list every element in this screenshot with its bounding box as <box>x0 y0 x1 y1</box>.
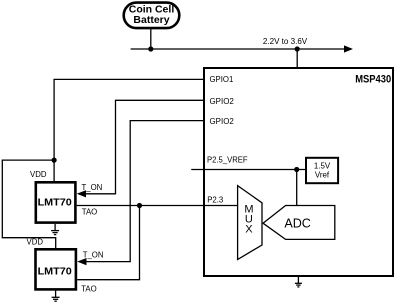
svg-text:2.2V to 3.6V: 2.2V to 3.6V <box>263 36 308 46</box>
wire P2.5_VREF to Vref box <box>191 169 306 171</box>
ground MSP430 <box>295 277 302 287</box>
battery BT1 Coin Cell Battery <box>124 3 180 29</box>
svg-text:P2.3: P2.3 <box>207 195 223 205</box>
svg-text:TAO: TAO <box>81 285 96 294</box>
svg-text:GPIO2: GPIO2 <box>210 116 235 126</box>
svg-text:VDD: VDD <box>30 170 47 179</box>
regulator 1.5V Vref box <box>306 158 338 183</box>
svg-text:GPIO2: GPIO2 <box>210 96 235 106</box>
sensor U3 LMT70 #2 <box>36 249 76 289</box>
junction rail/MSP430 <box>295 46 300 51</box>
wire battery stem <box>150 28 152 49</box>
sensor U2 LMT70 #1 <box>36 182 76 222</box>
svg-text:LMT70: LMT70 <box>38 198 72 209</box>
junction TAO node <box>137 203 142 208</box>
wire power rail 2.2V-3.6V <box>131 48 345 50</box>
wire VDD node to LMT70#1 top <box>53 160 55 181</box>
svg-text:Vref: Vref <box>315 169 330 179</box>
ground LMT70#2 <box>52 291 60 302</box>
arrowhead power rail <box>344 45 353 52</box>
mux U4 MUX <box>238 186 262 260</box>
svg-text:X: X <box>245 224 253 236</box>
svg-text:T_ON: T_ON <box>83 251 104 260</box>
svg-text:P2.5_VREF: P2.5_VREF <box>207 155 248 165</box>
junction VDD node <box>52 158 57 163</box>
wire TAO#1 / P2.3 net <box>77 205 238 207</box>
svg-text:T_ON: T_ON <box>82 183 103 192</box>
svg-text:GPIO1: GPIO1 <box>210 74 234 84</box>
junction Vref node <box>294 167 299 172</box>
wire GPIO2 to T_ON#2 <box>86 121 203 262</box>
wire Vref node to ADC top <box>296 170 298 206</box>
wire VDD left rail to LMT70#2 <box>2 160 55 248</box>
svg-text:TAO: TAO <box>82 208 97 217</box>
adc U5 ADC <box>263 206 335 240</box>
svg-text:MSP430: MSP430 <box>355 74 391 86</box>
wire rail to MSP430 top <box>296 49 298 67</box>
svg-text:Battery: Battery <box>133 14 169 26</box>
svg-text:LMT70: LMT70 <box>38 266 72 277</box>
arrowhead T_ON#2 <box>77 258 86 265</box>
wire GPIO1 to VDD net <box>54 79 203 160</box>
svg-text:VDD: VDD <box>27 237 44 246</box>
junction battery/rail <box>148 46 153 51</box>
svg-text:ADC: ADC <box>284 216 311 231</box>
arrowhead T_ON#1 <box>77 190 86 197</box>
ground LMT70#1 <box>51 224 59 235</box>
wire GPIO2 to T_ON#1 <box>85 100 203 194</box>
wire TAO#2 riser <box>77 206 139 280</box>
IC U1 MSP430 box <box>204 68 393 276</box>
